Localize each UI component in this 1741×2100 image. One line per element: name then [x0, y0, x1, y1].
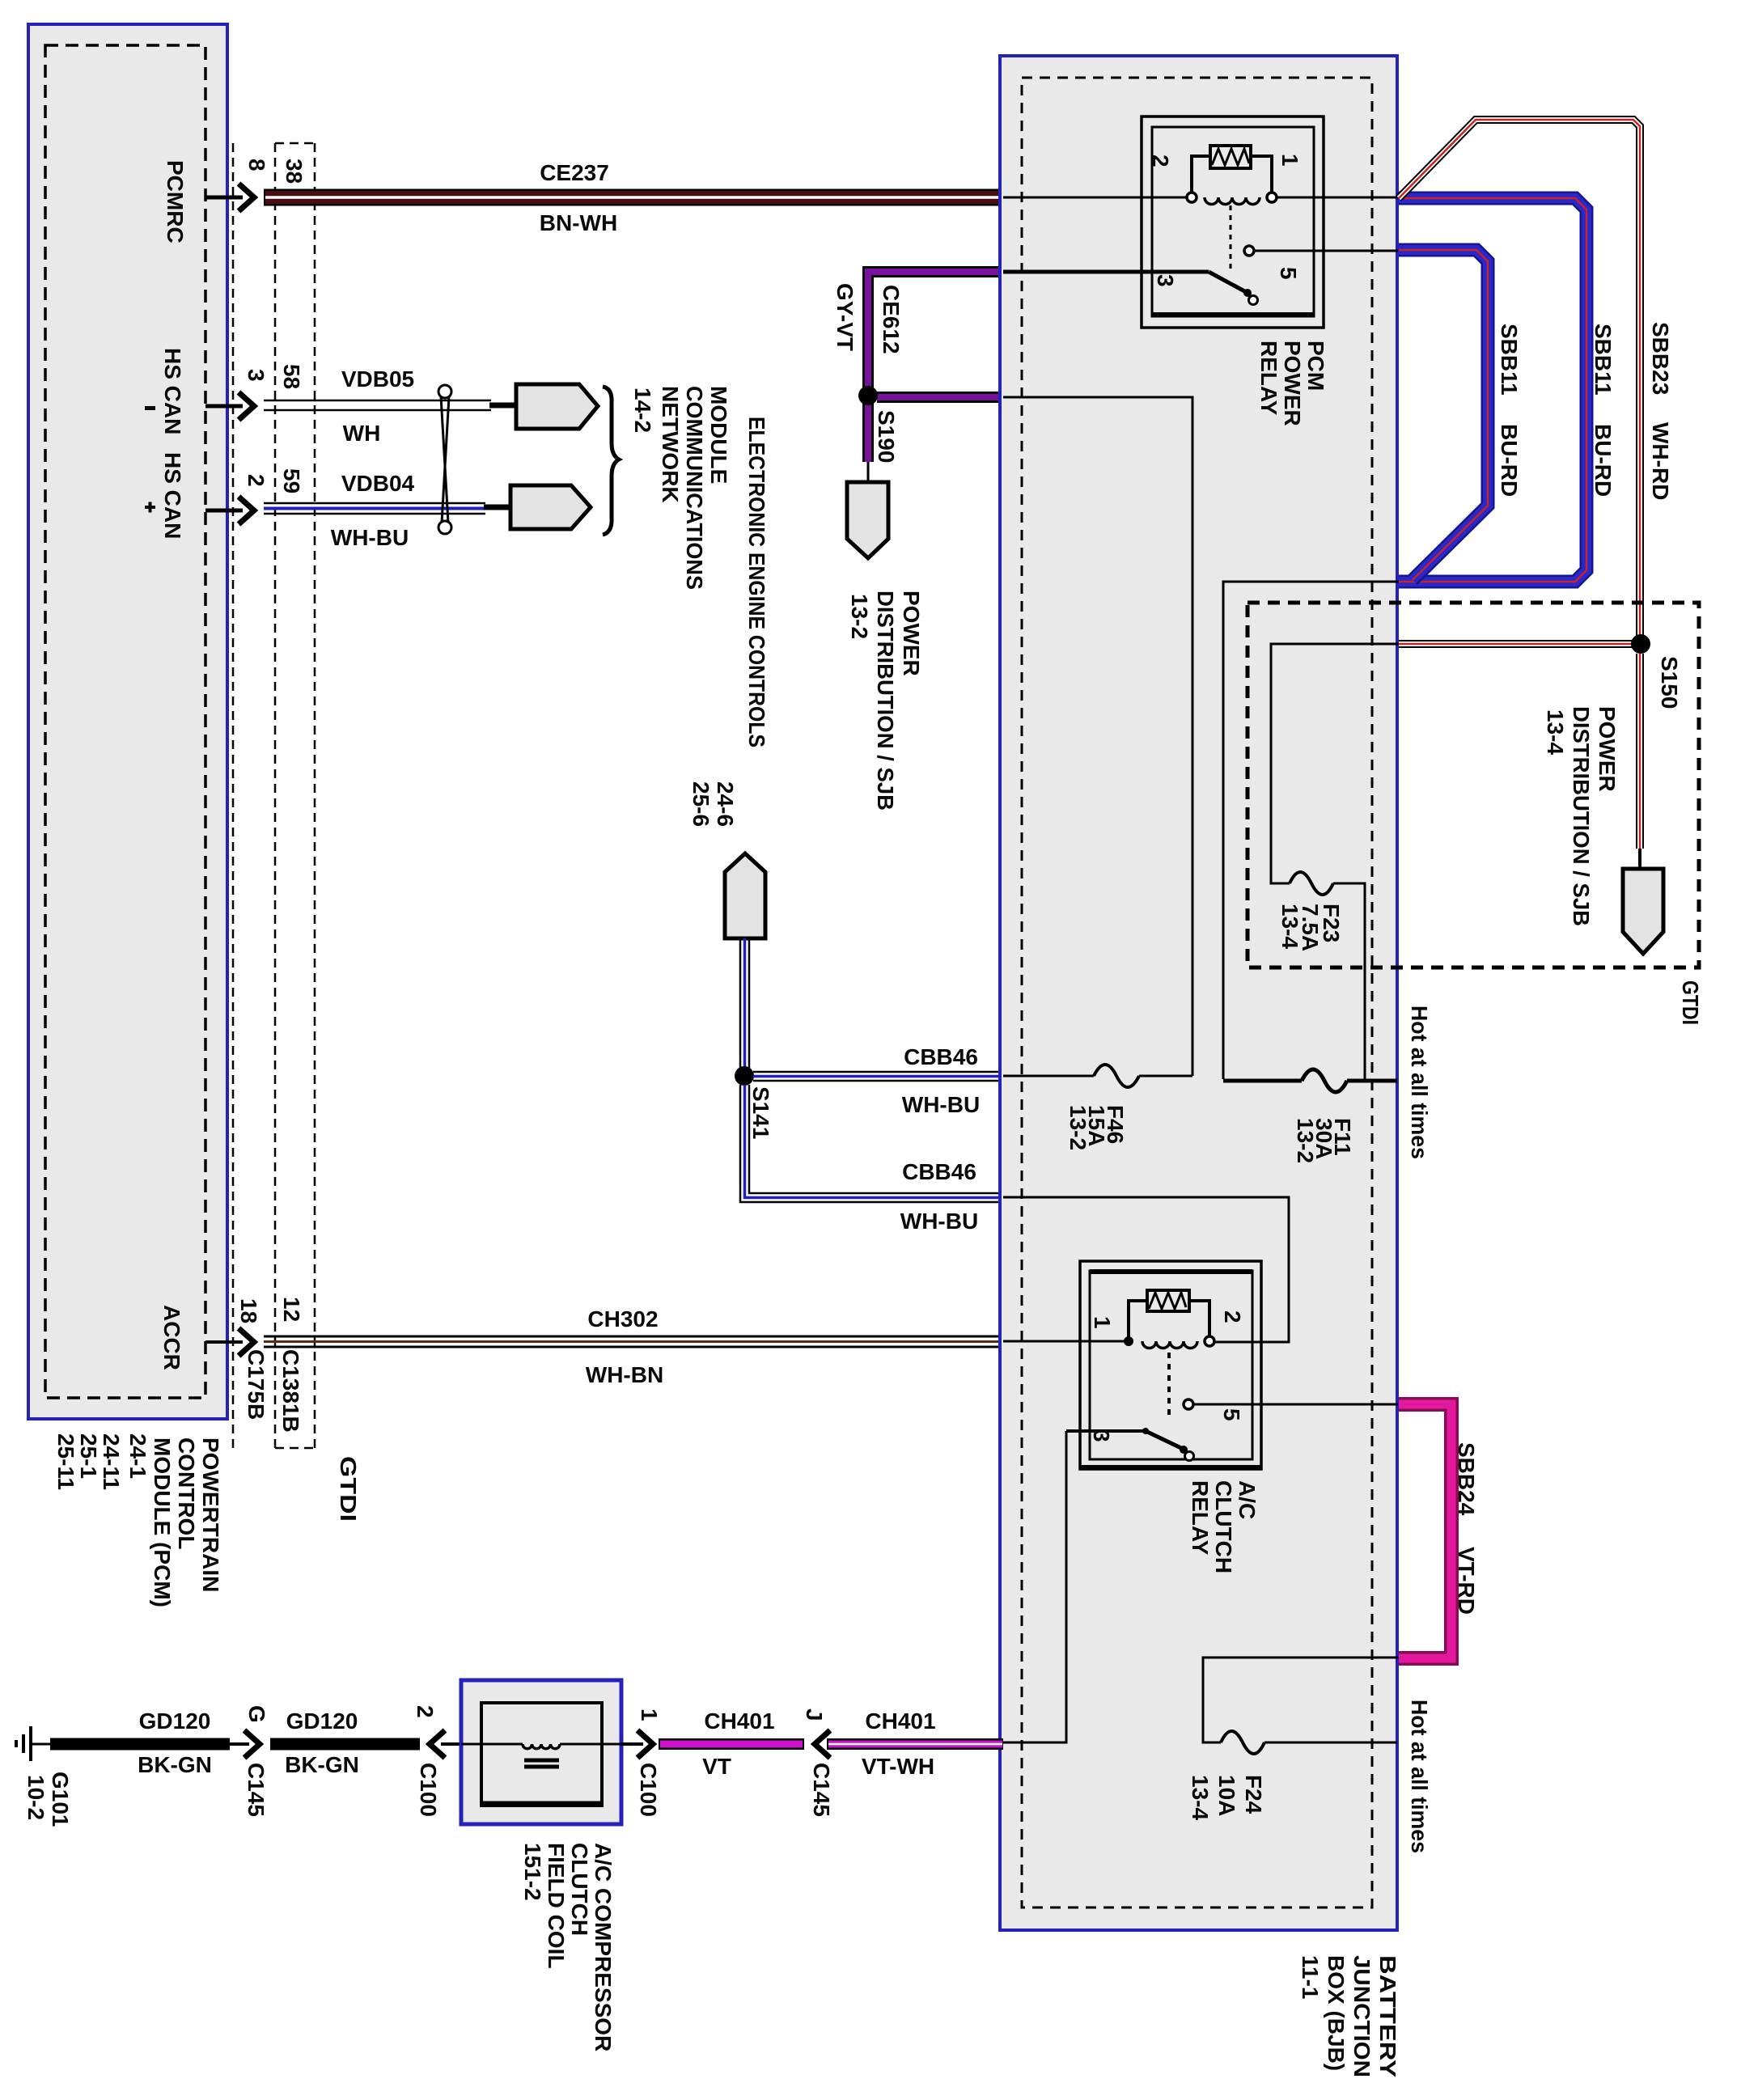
svg-text:1: 1 — [637, 1708, 662, 1721]
svg-text:G101: G101 — [48, 1772, 73, 1827]
svg-text:G: G — [244, 1705, 269, 1723]
svg-text:C100: C100 — [636, 1763, 661, 1817]
svg-text:HS CAN: HS CAN — [160, 348, 185, 434]
svg-text:14-2: 14-2 — [630, 387, 655, 433]
svg-text:WH-BU: WH-BU — [900, 1209, 978, 1234]
svg-text:BU-RD: BU-RD — [1591, 424, 1616, 497]
svg-text:13-4: 13-4 — [1188, 1775, 1213, 1820]
svg-text:10-2: 10-2 — [23, 1775, 49, 1820]
connector arrow module comm network lower — [510, 485, 591, 529]
svg-text:S150: S150 — [1657, 656, 1682, 709]
svg-text:DISTRIBUTION / SJB: DISTRIBUTION / SJB — [1569, 706, 1594, 926]
wire SBB11 BU-RD small bracket — [1399, 250, 1522, 580]
connector C100 pin 1 — [621, 1708, 662, 1817]
connector arrow module comm network upper — [516, 384, 598, 429]
pin HS CAN - 3 — [145, 348, 304, 434]
svg-text:FIELD COIL: FIELD COIL — [544, 1843, 569, 1969]
svg-text:GY-VT: GY-VT — [832, 283, 858, 351]
svg-text:CBB46: CBB46 — [902, 1159, 976, 1184]
label BATTERY JUNCTION BOX (BJB) 11-1 — [1298, 1955, 1400, 2077]
wire SBB24 return inside BJB to F24 — [1203, 1658, 1399, 1742]
svg-text:25-6: 25-6 — [688, 781, 714, 827]
svg-text:C145: C145 — [809, 1763, 834, 1817]
svg-text:C1381B: C1381B — [278, 1349, 303, 1433]
wire CBB46 WH-BU upper — [753, 1044, 1003, 1117]
wire CH401 VT — [659, 1708, 804, 1779]
svg-text:8: 8 — [244, 159, 269, 171]
wire S190 return to F46 — [1003, 397, 1192, 1076]
svg-text:CH302: CH302 — [587, 1306, 658, 1332]
svg-text:C145: C145 — [244, 1763, 269, 1817]
wire SBB23 WH-RD — [1399, 120, 1673, 644]
svg-text:JUNCTION: JUNCTION — [1349, 1955, 1375, 2077]
node S150 — [1631, 634, 1682, 709]
svg-text:J: J — [802, 1708, 827, 1721]
fuse F46 15A — [1003, 1065, 1192, 1150]
connector C145 pin G — [230, 1705, 269, 1817]
svg-text:VT-RD: VT-RD — [1454, 1547, 1479, 1615]
svg-text:Hot at all times: Hot at all times — [1407, 1700, 1432, 1853]
label POWERTRAIN CONTROL MODULE (PCM) — [53, 1433, 223, 1607]
svg-text:RELAY: RELAY — [1188, 1480, 1213, 1556]
svg-text:13-2: 13-2 — [847, 594, 872, 639]
wire VDB04 WH-BU — [264, 471, 510, 550]
svg-text:SBB23: SBB23 — [1648, 322, 1673, 395]
svg-text:POWERTRAIN: POWERTRAIN — [198, 1437, 223, 1592]
svg-text:2: 2 — [244, 474, 269, 487]
svg-text:2: 2 — [1148, 155, 1173, 167]
svg-text:Hot at all times: Hot at all times — [1407, 1006, 1432, 1159]
ground G101 — [16, 1726, 73, 1827]
wire WH-RD BJB edge to S150 — [1399, 640, 1641, 648]
svg-text:24-11: 24-11 — [99, 1433, 124, 1490]
module PCM box — [28, 24, 227, 1419]
svg-text:CH401: CH401 — [704, 1708, 774, 1734]
wire CE237 BN-WH — [264, 160, 1003, 235]
svg-text:151-2: 151-2 — [520, 1843, 545, 1901]
svg-text:3: 3 — [1089, 1429, 1114, 1442]
pin PCMRC 8 — [163, 159, 307, 243]
svg-text:CLUTCH: CLUTCH — [1211, 1480, 1236, 1573]
connector C175B dashed line — [232, 143, 235, 1448]
svg-text:PCM: PCM — [1303, 341, 1328, 391]
node S141 — [735, 1066, 773, 1139]
svg-text:BK-GN: BK-GN — [285, 1752, 359, 1777]
svg-text:25-1: 25-1 — [76, 1433, 101, 1479]
wire CE612 GY-VT — [832, 272, 1003, 462]
svg-text:59: 59 — [279, 468, 304, 493]
svg-text:WH: WH — [343, 421, 381, 446]
svg-text:38: 38 — [282, 159, 307, 184]
svg-text:GTDI: GTDI — [336, 1456, 361, 1522]
svg-text:13-2: 13-2 — [1293, 1118, 1318, 1163]
svg-text:POWER: POWER — [1595, 706, 1620, 792]
wire S150 feed into BJB to F23 — [1271, 644, 1399, 883]
wire SBB11 BU-RD big bracket — [1399, 198, 1616, 582]
label ELECTRONIC ENGINE CONTROLS 24-6 25-6 — [688, 417, 769, 827]
svg-text:CH401: CH401 — [865, 1708, 935, 1734]
wire GD120 BK-GN right — [270, 1708, 420, 1777]
svg-text:S141: S141 — [748, 1086, 773, 1139]
svg-text:10A: 10A — [1214, 1775, 1239, 1816]
svg-text:2: 2 — [1220, 1310, 1245, 1323]
svg-text:3: 3 — [244, 369, 269, 382]
connector arrow POWER DISTRIBUTION SJB 13-2 — [847, 482, 924, 811]
svg-text:ACCR: ACCR — [159, 1305, 184, 1370]
svg-text:A/C COMPRESSOR: A/C COMPRESSOR — [591, 1843, 616, 2051]
wire S190 to SJB 13-2 connector — [867, 462, 870, 484]
box POWER DISTRIBUTION SJB 13-4 dashed — [1248, 603, 1703, 1025]
svg-text:VDB05: VDB05 — [341, 366, 414, 392]
svg-text:13-4: 13-4 — [1543, 709, 1568, 755]
svg-text:VT: VT — [702, 1754, 731, 1779]
wire EEC connector to S141 WH-BU — [740, 938, 749, 1076]
wire GD120 BK-GN left — [50, 1708, 230, 1777]
svg-text:CE612: CE612 — [879, 285, 904, 354]
svg-text:GTDI: GTDI — [1678, 980, 1703, 1025]
svg-text:HS CAN: HS CAN — [160, 452, 185, 539]
svg-text:SBB11: SBB11 — [1497, 324, 1522, 396]
svg-text:SBB24: SBB24 — [1454, 1442, 1479, 1516]
brace module communications network — [603, 387, 619, 535]
svg-text:13-2: 13-2 — [1065, 1105, 1091, 1150]
svg-text:BATTERY: BATTERY — [1375, 1955, 1400, 2077]
svg-text:25-11: 25-11 — [53, 1433, 78, 1490]
svg-text:VDB04: VDB04 — [341, 471, 415, 496]
svg-text:CLUTCH: CLUTCH — [567, 1843, 592, 1936]
box BATTERY JUNCTION BOX BJB — [1000, 56, 1397, 1930]
wire CBB46 WH-BU lower — [740, 1085, 1003, 1234]
svg-text:NETWORK: NETWORK — [658, 386, 683, 503]
svg-text:ELECTRONIC ENGINE CONTROLS: ELECTRONIC ENGINE CONTROLS — [744, 417, 769, 747]
wire CE237 inside BJB to relay coil — [1003, 197, 1192, 199]
svg-text:CONTROL: CONTROL — [174, 1437, 199, 1549]
wire CH302 inside BJB to A/C relay coil pin 1 — [1003, 1340, 1133, 1343]
svg-text:F24: F24 — [1241, 1775, 1266, 1814]
pin HS CAN + 2 — [145, 452, 304, 539]
svg-text:18: 18 — [236, 1298, 261, 1323]
svg-text:CBB46: CBB46 — [904, 1044, 978, 1069]
twisted pair symbol — [438, 385, 451, 534]
wire SBB11 return inside BJB to F11 — [1223, 582, 1399, 1079]
pin ACCR 18 C175B — [159, 1297, 361, 1522]
svg-text:CE237: CE237 — [540, 160, 609, 185]
svg-text:POWER: POWER — [1280, 341, 1305, 426]
svg-text:BK-GN: BK-GN — [138, 1752, 212, 1777]
connector C100 pin 2 — [413, 1705, 461, 1817]
svg-text:S190: S190 — [874, 410, 899, 463]
wire SBB24 VT-RD — [1399, 1404, 1479, 1658]
fuse F24 10A — [1188, 1731, 1397, 1820]
svg-text:1: 1 — [1277, 154, 1303, 167]
component A/C COMPRESSOR CLUTCH FIELD COIL — [461, 1680, 621, 2051]
connector C145 pin J — [802, 1708, 834, 1817]
wire relay pin3 to BJB edge (CE612) — [1003, 270, 1152, 274]
svg-text:12: 12 — [279, 1297, 304, 1322]
relay PCM POWER RELAY — [1142, 116, 1398, 426]
wire VDB05 WH — [264, 366, 516, 446]
relay A/C CLUTCH RELAY — [1066, 1261, 1398, 1573]
label MODULE COMMUNICATIONS NETWORK 14-2 — [630, 386, 731, 590]
svg-text:58: 58 — [279, 364, 304, 389]
svg-text:WH-RD: WH-RD — [1648, 422, 1673, 500]
svg-text:24-6: 24-6 — [713, 781, 738, 827]
svg-text:DISTRIBUTION / SJB: DISTRIBUTION / SJB — [873, 591, 898, 811]
svg-text:GD120: GD120 — [286, 1708, 358, 1734]
svg-text:3: 3 — [1153, 274, 1178, 287]
svg-text:VT-WH: VT-WH — [862, 1754, 934, 1779]
svg-text:WH-BU: WH-BU — [902, 1092, 980, 1117]
svg-text:24-1: 24-1 — [125, 1433, 150, 1479]
svg-text:PCMRC: PCMRC — [163, 160, 188, 243]
svg-text:2: 2 — [413, 1705, 438, 1718]
connector arrow SJB 13-4 — [1623, 869, 1663, 954]
svg-text:RELAY: RELAY — [1256, 341, 1281, 416]
svg-text:A/C: A/C — [1235, 1480, 1260, 1519]
svg-text:GD120: GD120 — [139, 1708, 211, 1734]
node S190 — [858, 386, 899, 463]
svg-text:POWER: POWER — [899, 591, 924, 676]
svg-text:BOX (BJB): BOX (BJB) — [1324, 1955, 1349, 2071]
svg-text:MODULE: MODULE — [706, 386, 731, 484]
wire CH302 WH-BN — [264, 1306, 1003, 1387]
connector arrow electronic engine controls — [725, 853, 765, 938]
svg-text:MODULE (PCM): MODULE (PCM) — [150, 1437, 175, 1607]
wire A/C relay pin3 down to CH401 — [1003, 1431, 1066, 1742]
svg-text:COMMUNICATIONS: COMMUNICATIONS — [682, 386, 707, 590]
svg-text:5: 5 — [1219, 1408, 1244, 1421]
svg-text:BN-WH: BN-WH — [540, 210, 617, 235]
wire CBB46 lower inside BJB to A/C relay coil — [1003, 1197, 1289, 1342]
fuse F11 30A hot bus — [1223, 1069, 1397, 1163]
svg-text:1: 1 — [1090, 1316, 1115, 1329]
svg-text:C100: C100 — [416, 1763, 441, 1817]
svg-text:WH-BU: WH-BU — [331, 525, 409, 550]
svg-text:5: 5 — [1276, 267, 1301, 280]
svg-text:11-1: 11-1 — [1298, 1955, 1323, 2000]
connector C1381B dashed lines — [275, 143, 315, 1448]
svg-text:C175B: C175B — [244, 1349, 269, 1420]
svg-text:SBB11: SBB11 — [1591, 324, 1616, 396]
wire CH401 VT-WH — [827, 1708, 1003, 1779]
svg-text:13-4: 13-4 — [1277, 904, 1303, 949]
svg-text:BU-RD: BU-RD — [1497, 424, 1522, 497]
wire relay pin1 to BJB edge — [1277, 197, 1399, 199]
svg-text:WH-BN: WH-BN — [586, 1362, 663, 1387]
fuse F23 7.5A — [1277, 872, 1365, 1081]
wire S150 down to SJB 13-4 connector WH-RD — [1636, 654, 1644, 870]
